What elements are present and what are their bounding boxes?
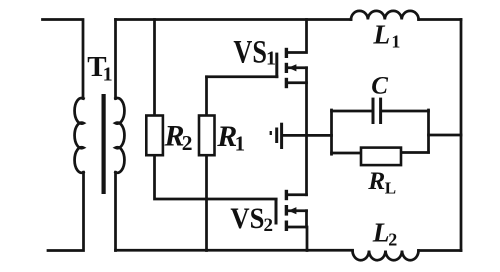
svg-text:2: 2 xyxy=(388,229,397,249)
svg-text:L: L xyxy=(372,19,390,50)
svg-text:VS: VS xyxy=(230,202,264,235)
svg-text:R: R xyxy=(367,166,385,195)
svg-text:L: L xyxy=(372,217,390,248)
svg-text:L: L xyxy=(385,178,396,197)
svg-text:1: 1 xyxy=(103,64,113,86)
svg-text:C: C xyxy=(371,73,388,100)
svg-text:1: 1 xyxy=(235,132,246,156)
svg-text:2: 2 xyxy=(182,131,193,155)
svg-text:1: 1 xyxy=(391,31,400,51)
svg-text:1: 1 xyxy=(266,48,276,70)
svg-text:VS: VS xyxy=(233,35,267,71)
svg-text:2: 2 xyxy=(264,215,274,236)
